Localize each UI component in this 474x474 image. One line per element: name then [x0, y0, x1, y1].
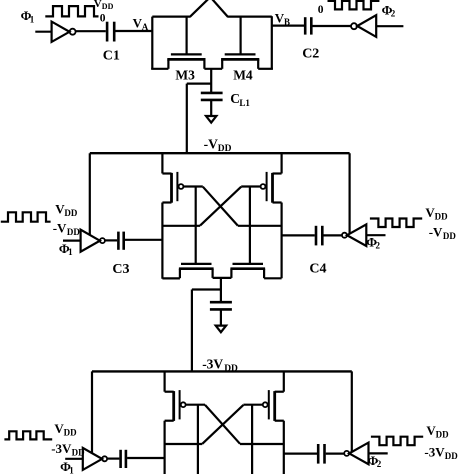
svg-text:DD: DD: [102, 2, 114, 11]
svg-text:M3: M3: [175, 67, 195, 82]
svg-text:2: 2: [377, 459, 382, 469]
svg-text:1: 1: [30, 14, 35, 24]
svg-text:1: 1: [68, 247, 73, 257]
svg-text:DD: DD: [435, 211, 448, 221]
svg-text:DD: DD: [67, 227, 80, 237]
svg-text:-3V: -3V: [51, 441, 72, 456]
svg-text:-V: -V: [429, 225, 443, 240]
svg-text:C4: C4: [309, 262, 326, 277]
svg-text:L1: L1: [239, 98, 250, 108]
svg-text:C2: C2: [302, 47, 319, 62]
svg-text:DD: DD: [436, 429, 449, 439]
svg-text:0: 0: [100, 12, 106, 24]
svg-text:-V: -V: [53, 221, 67, 236]
svg-text:DD: DD: [72, 447, 85, 457]
svg-text:DD: DD: [443, 231, 456, 241]
svg-text:1: 1: [69, 466, 74, 474]
svg-text:-V: -V: [204, 137, 218, 152]
svg-text:M4: M4: [233, 67, 253, 82]
svg-text:C3: C3: [112, 262, 129, 277]
svg-text:0: 0: [318, 4, 324, 16]
svg-text:DD: DD: [64, 428, 77, 438]
svg-text:DD: DD: [224, 364, 238, 374]
svg-text:DD: DD: [445, 451, 458, 461]
svg-text:2: 2: [391, 9, 396, 19]
svg-text:DD: DD: [64, 208, 77, 218]
svg-text:A: A: [142, 22, 149, 32]
svg-text:C1: C1: [103, 48, 120, 63]
svg-text:2: 2: [376, 241, 381, 251]
svg-text:-3V: -3V: [202, 357, 223, 372]
svg-text:V: V: [94, 0, 102, 10]
svg-text:-3V: -3V: [424, 445, 445, 460]
